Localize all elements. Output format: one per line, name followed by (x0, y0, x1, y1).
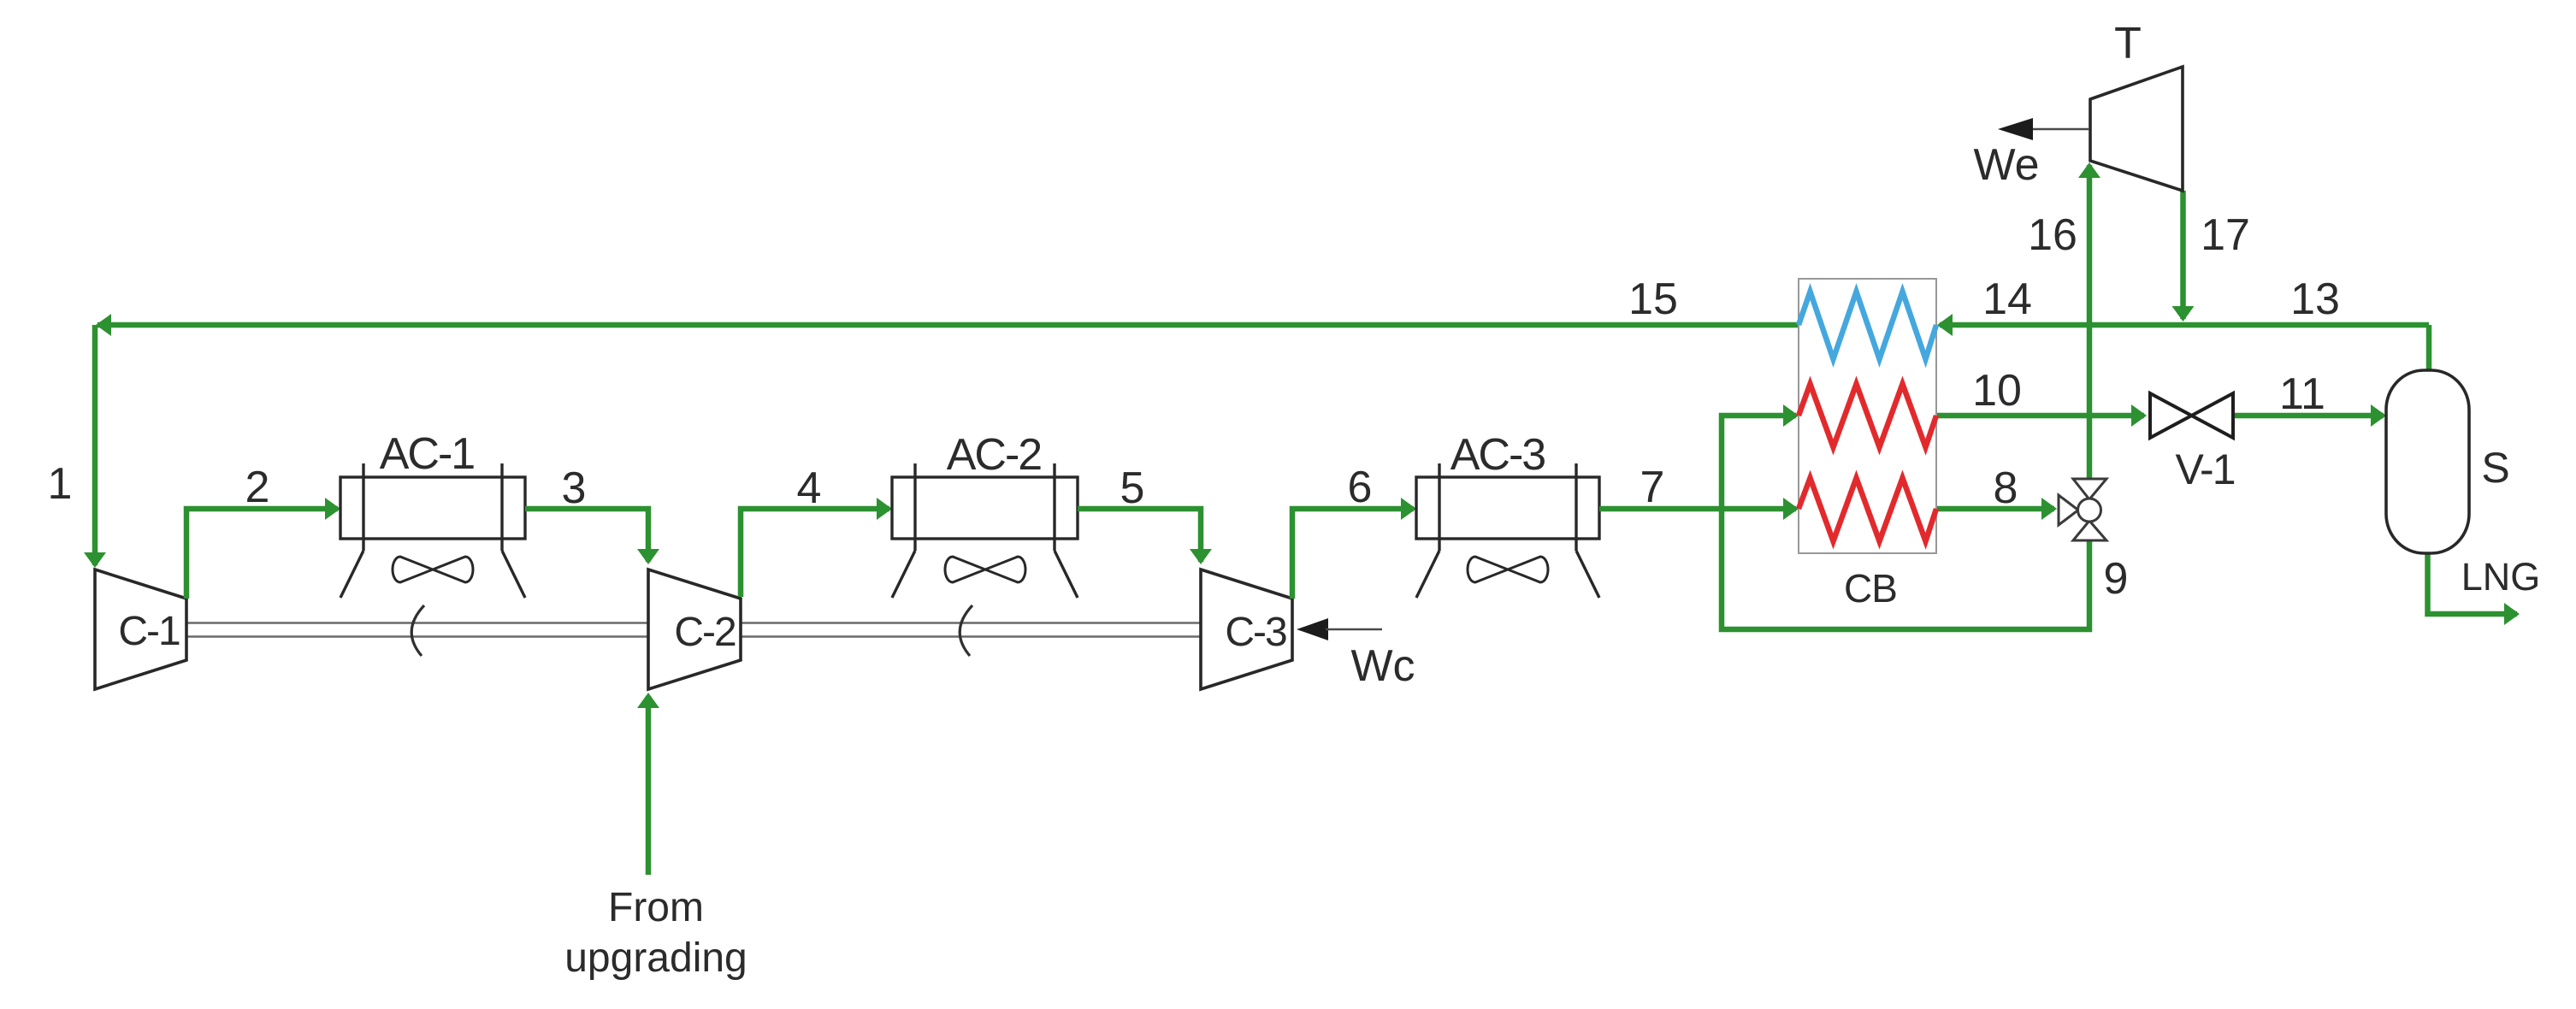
air cooler AC-3 (1416, 463, 1599, 598)
valve three-way (2059, 479, 2106, 540)
arrow stream 16 into turbine (2078, 162, 2100, 178)
compressor C-2 (648, 569, 741, 689)
arrow stream 5 into C-3 (1190, 549, 1212, 564)
arrow stream 4 into AC-2 (877, 498, 892, 520)
svg-text:9: 9 (2104, 554, 2129, 604)
arrow from upgrading into C-2 (637, 693, 659, 708)
separator S (2386, 370, 2469, 553)
CB blue coil (1799, 292, 1936, 359)
arrow stream 1 into C-1 (84, 552, 106, 568)
wire stream 6 (1292, 509, 1414, 599)
arrow Wc into C-3 (1297, 618, 1328, 640)
svg-text:11: 11 (2279, 369, 2325, 419)
compressor C-3 (1201, 569, 1292, 689)
arrow stream 3 into C-2 (637, 549, 659, 564)
shaft break symbol 1 (411, 605, 424, 656)
svg-text:Wc: Wc (1350, 641, 1415, 691)
svg-text:17: 17 (2201, 210, 2250, 260)
wire stream 3 (525, 509, 648, 562)
arrow stream 10 into V-1 (2131, 404, 2147, 427)
svg-text:6: 6 (1348, 463, 1373, 512)
svg-text:8: 8 (1994, 463, 2018, 513)
svg-text:C-2: C-2 (674, 610, 736, 655)
svg-text:C-3: C-3 (1225, 610, 1286, 655)
wire stream from upgrading (646, 696, 652, 875)
arrow stream 6 into AC-3 (1401, 498, 1416, 520)
wire stream 5 (1078, 509, 1201, 562)
wire We (2032, 128, 2089, 131)
arrow stream 17 to junction (2172, 306, 2195, 322)
arrow stream 8 into valve (2041, 498, 2057, 520)
arrow stream 11 into S (2371, 404, 2386, 427)
wire stream 14 and 13 horizontal (1940, 322, 2429, 328)
svg-text:AC-1: AC-1 (380, 429, 475, 479)
svg-text:T: T (2114, 19, 2142, 68)
svg-text:15: 15 (1628, 274, 1678, 324)
wire stream 13 vertical (2426, 325, 2432, 371)
svg-text:10: 10 (1972, 366, 2022, 416)
arrow stream 14 into CB (1937, 314, 1953, 336)
wire stream 16 (2087, 165, 2093, 479)
shaft C-2 to C-3 (741, 623, 1201, 637)
arrow stream 15 left end (96, 314, 111, 336)
svg-text:From: From (608, 885, 704, 930)
wire stream 17 (2180, 191, 2186, 319)
wire stream 8 (1936, 506, 2054, 512)
svg-text:7: 7 (1640, 463, 1665, 512)
wire stream 11 (2233, 413, 2384, 419)
arrow stream 9 into CB (1783, 404, 1799, 427)
arrow stream 2 into AC-1 (325, 498, 340, 520)
svg-text:CB: CB (1844, 566, 1897, 611)
air cooler AC-1 (340, 463, 525, 598)
fan of AC-3 (1468, 557, 1548, 582)
cold box CB (1799, 279, 1936, 553)
svg-text:AC-3: AC-3 (1450, 430, 1545, 480)
wire stream 15 horizontal (97, 322, 1799, 328)
svg-text:S: S (2481, 444, 2509, 492)
svg-text:C-1: C-1 (118, 609, 180, 654)
wire stream 9 (1722, 416, 2089, 629)
wire LNG out (2428, 553, 2518, 614)
svg-text:13: 13 (2290, 274, 2340, 324)
svg-text:upgrading: upgrading (564, 935, 747, 981)
svg-text:LNG: LNG (2461, 555, 2541, 599)
svg-text:1: 1 (48, 459, 73, 509)
wire stream 4 (741, 509, 889, 597)
air cooler AC-2 (892, 463, 1078, 598)
svg-text:14: 14 (1982, 274, 2032, 324)
fan of AC-2 (945, 557, 1025, 582)
svg-text:AC-2: AC-2 (947, 430, 1042, 480)
svg-text:2: 2 (245, 463, 270, 512)
shaft C-1 to C-2 (186, 623, 648, 637)
wire stream 10 (1936, 413, 2144, 419)
arrow LNG (2504, 603, 2520, 625)
valve V-1 (2150, 393, 2233, 438)
arrow We (1998, 118, 2033, 140)
shaft break symbol 2 (960, 605, 972, 656)
svg-text:5: 5 (1120, 463, 1145, 513)
svg-text:4: 4 (797, 463, 822, 513)
CB red coil 1 (1799, 384, 1936, 447)
wire stream 7 (1599, 506, 1796, 512)
turbine T (2090, 67, 2183, 191)
svg-text:We: We (1973, 140, 2039, 190)
arrow stream 7 into CB (1783, 498, 1799, 520)
wire stream 2 (186, 509, 338, 599)
fan of AC-1 (393, 557, 473, 582)
svg-text:16: 16 (2028, 210, 2077, 260)
svg-text:V-1: V-1 (2175, 445, 2234, 493)
wire Wc (1326, 628, 1382, 631)
CB red coil 2 (1799, 478, 1936, 541)
svg-text:3: 3 (562, 463, 587, 513)
compressor C-1 (95, 569, 186, 689)
wire stream 1 vertical (92, 325, 98, 565)
